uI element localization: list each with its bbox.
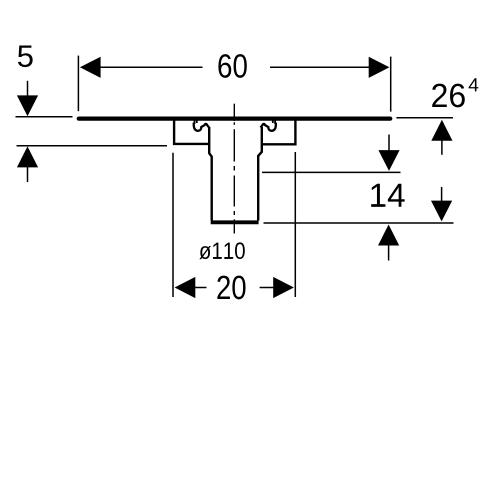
dim 60: left extension line — [77, 56, 79, 112]
dim 26 label with superscript 4 — [432, 84, 465, 108]
dim 5: top reference line — [16, 116, 73, 118]
dim 26: down arrow — [431, 187, 452, 221]
right hook clip — [260, 120, 275, 131]
dim 5: bottom reference line — [17, 145, 168, 147]
pipe right wall — [258, 127, 262, 221]
dim 60: label — [218, 54, 246, 78]
pipe left wall — [209, 127, 212, 221]
left hook clip — [194, 120, 209, 131]
dim 26: top reference line — [396, 117, 453, 119]
flange box left edge + bottom — [174, 120, 209, 144]
dim 60: line + arrows — [80, 57, 390, 78]
foot serif of digit 1 — [372, 204, 384, 206]
dim 14: down arrow — [378, 135, 399, 171]
dim 14: label — [371, 184, 405, 207]
dim 5: up arrow — [17, 146, 38, 182]
bottom reference line (shared 26/14) — [264, 222, 454, 224]
centerline (dash-dot) — [233, 104, 235, 234]
pipe bottom (thick) — [211, 220, 259, 224]
foot serifs of digits 1 in o110 — [213, 257, 232, 259]
flange box right edge + bottom — [263, 120, 296, 145]
dim 26: up arrow — [431, 120, 452, 155]
pipe diameter label — [199, 242, 244, 259]
dim 20: label — [217, 276, 245, 300]
dim 20: left extension line — [172, 153, 174, 297]
dim 5: label — [18, 45, 33, 67]
dim 20: right extension line — [294, 152, 296, 297]
dim 14: up arrow — [378, 225, 399, 261]
dim 5: down arrow — [17, 81, 38, 116]
dim 20: line + arrows — [175, 277, 294, 298]
cover plate (thick) — [79, 116, 390, 120]
dim 60: right extension line — [390, 57, 392, 112]
dim 14: top reference line — [262, 171, 401, 173]
